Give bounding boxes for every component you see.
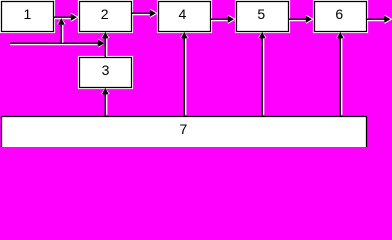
wire block1 to block2 (54, 17, 72, 18)
block 1 (2, 2, 54, 32)
arrowhead feedback into vertical wire (98, 40, 104, 47)
svg-text:7: 7 (180, 121, 188, 137)
arrowhead into block 5 bottom (259, 32, 266, 39)
wire block4 to block5 (210, 19, 228, 20)
svg-text:4: 4 (179, 6, 187, 22)
arrowhead output at right edge (384, 16, 390, 23)
arrowhead toward block 5 left (228, 16, 234, 23)
svg-text:5: 5 (257, 6, 265, 22)
wire block5 to block6 (288, 19, 306, 20)
block 7 (2, 117, 367, 149)
svg-text:6: 6 (335, 6, 343, 22)
wire block2 to block4 (131, 13, 150, 14)
arrowhead into block 4 bottom (181, 32, 188, 39)
wire block7 to block3 vertical (105, 94, 106, 116)
arrowhead into block 2 bottom (102, 32, 109, 39)
wire branch up from feedback (61, 25, 62, 43)
svg-text:1: 1 (24, 6, 32, 22)
arrowhead into block 3 bottom (102, 88, 109, 95)
arrowhead toward block 6 left (306, 16, 312, 23)
wire block7 to block6 vertical (340, 38, 341, 116)
block 2 (80, 2, 132, 32)
arrowhead branch into wire block1-block2 (58, 18, 65, 25)
svg-text:3: 3 (102, 62, 110, 78)
wire block7 to block4 vertical (184, 38, 185, 116)
arrowhead toward block 2 left (71, 14, 77, 21)
wire feedback horizontal (10, 43, 99, 44)
block 3 (80, 58, 132, 88)
block 6 (315, 2, 367, 32)
wire block7 to block5 vertical (262, 38, 263, 116)
wire block6 output (366, 19, 385, 20)
block 5 (237, 2, 289, 32)
arrowhead into block 6 bottom (337, 32, 344, 39)
svg-text:2: 2 (101, 6, 109, 22)
arrowhead toward block 4 left (150, 10, 156, 17)
wire block3 to block2 vertical (105, 38, 106, 57)
block 4 (159, 2, 211, 32)
